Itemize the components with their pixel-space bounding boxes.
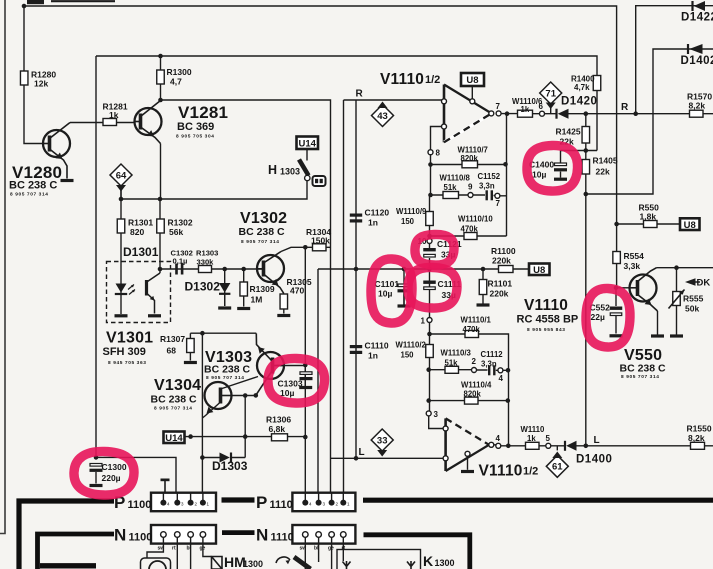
svg-text:V1301: V1301 [106, 330, 153, 347]
wires below N1100 [147, 537, 212, 569]
pin circle op2 +in [443, 426, 448, 431]
svg-text:C1120: C1120 [365, 208, 390, 218]
pin 4 P1110 [302, 500, 308, 506]
junction row199 left [119, 197, 124, 202]
junction fb row7 left [428, 162, 433, 167]
junction row4 left [426, 398, 431, 403]
svg-text:R1100: R1100 [491, 246, 516, 256]
resistor R1307 68 [187, 339, 195, 353]
pin circle 4 out [496, 443, 501, 448]
ground R1101 [477, 303, 490, 306]
junction D1303 top [243, 434, 248, 439]
svg-text:1110: 1110 [271, 532, 294, 544]
wire R550 row to U8 [617, 223, 680, 225]
capacitor C1110 1n [350, 345, 362, 354]
svg-text:12k: 12k [34, 79, 48, 89]
junction C1121 bottom [427, 267, 432, 272]
box U8 op1 [461, 73, 484, 86]
svg-text:V1110: V1110 [524, 297, 568, 314]
wire base V1280 row [70, 122, 135, 124]
resistor R1306 6,8k [272, 434, 288, 441]
wire P1110 pin1 column x305 [304, 247, 306, 502]
light arrows D1301 [128, 285, 135, 295]
connector P1110 box [292, 493, 355, 512]
arrow 61 [552, 452, 562, 459]
resistor W1110 1k [526, 442, 540, 449]
svg-text:1303: 1303 [280, 167, 300, 177]
pin circle op1 +in [442, 99, 447, 104]
pin circle op2 gnd [465, 451, 470, 456]
highlight C1101 [371, 259, 412, 323]
wire V550 emitter drop [657, 311, 659, 335]
svg-text:2: 2 [472, 357, 477, 366]
diamond 43 [372, 105, 394, 127]
svg-text:V1110: V1110 [479, 463, 523, 480]
wire C552 body stem [615, 288, 617, 306]
box U14 P1100 [164, 432, 185, 444]
svg-text:D1301: D1301 [123, 245, 159, 259]
svg-text:D1420: D1420 [561, 96, 597, 108]
pin stub P1110 3 [318, 493, 320, 500]
svg-text:BC 238 C: BC 238 C [620, 363, 667, 375]
highlight C1121 [415, 234, 454, 265]
pin stub P1100 3 [176, 493, 178, 500]
transistor V1304 BC238C [205, 382, 232, 414]
svg-text:W1110/2: W1110/2 [396, 341, 427, 350]
stem C552 [615, 316, 617, 334]
svg-text:D1400: D1400 [576, 454, 612, 466]
svg-text:150k: 150k [311, 236, 330, 246]
resistor R1405 22k [582, 160, 590, 175]
pin 2 P1110 [329, 500, 335, 506]
resistor R1280 12k [20, 71, 28, 85]
resistor R1309 1M [240, 282, 248, 296]
svg-text:10µ: 10µ [532, 170, 546, 180]
svg-text:L: L [359, 447, 365, 458]
svg-text:R1301: R1301 [128, 218, 153, 228]
svg-text:470k: 470k [463, 325, 481, 334]
wire R1405 bottom row to D1402 [586, 49, 713, 194]
diamond 64 [110, 164, 132, 186]
svg-text:1100: 1100 [129, 532, 153, 544]
capacitor C1300 220u [90, 464, 103, 472]
wire W1110/7 feedback row [431, 164, 507, 166]
svg-text:71: 71 [545, 88, 556, 99]
pin 4 N1100 [161, 532, 167, 538]
junction C1400 row [584, 148, 589, 153]
svg-text:1n: 1n [368, 351, 378, 361]
svg-text:220µ: 220µ [102, 473, 121, 483]
wire R1101 drop [482, 269, 484, 304]
svg-text:U14: U14 [165, 433, 183, 444]
svg-text:RC 4558 BP: RC 4558 BP [517, 314, 579, 326]
wire top right branch x635 with D1422 [636, 6, 713, 114]
diode D1400 [565, 441, 577, 451]
junction V550 base [614, 286, 619, 291]
svg-text:H: H [268, 163, 277, 177]
svg-text:1/2: 1/2 [425, 74, 440, 86]
transistor V1281 BC369 [135, 101, 162, 144]
svg-text:C1112: C1112 [481, 350, 504, 359]
pin 4 P1100 [160, 500, 166, 506]
border frame left edge [0, 0, 5, 534]
capacitor C1303 10u [300, 372, 313, 380]
wire op2 output L row [494, 445, 713, 446]
connector N1100 box [151, 525, 216, 544]
svg-text:U8: U8 [533, 265, 545, 276]
svg-text:V550: V550 [624, 347, 662, 364]
pin 1 N1110 [341, 532, 347, 538]
svg-text:D1402: D1402 [681, 55, 713, 67]
svg-text:820k: 820k [464, 390, 482, 399]
stem C1101 [403, 293, 405, 305]
svg-text:4: 4 [499, 374, 504, 383]
wire W1110/4 row [429, 400, 509, 402]
ground R555 [670, 334, 683, 337]
svg-text:V1302: V1302 [240, 210, 287, 227]
terminal C1400 [554, 178, 567, 181]
wire R1309 drop [243, 269, 245, 307]
pin circle 6 [540, 111, 545, 116]
lamp H1303 bar [299, 160, 309, 176]
svg-text:8,2k: 8,2k [688, 433, 705, 443]
wire D1303 riser x245 [244, 396, 246, 458]
cropped marks top edge [27, 0, 44, 4]
svg-text:61: 61 [552, 462, 563, 473]
svg-text:D1422: D1422 [681, 12, 713, 24]
junction fb row10 left [427, 234, 432, 239]
terminal C552 [610, 334, 623, 337]
svg-text:R554: R554 [624, 251, 645, 261]
resistor R1302 56k [157, 219, 165, 233]
resistor W1110/8 51k [443, 192, 459, 199]
resistor W1110/10 470k [464, 233, 477, 240]
pin circle 4 fb [498, 368, 503, 373]
svg-text:4: 4 [496, 434, 501, 443]
svg-text:43: 43 [377, 111, 388, 122]
terminal C1303 [299, 386, 312, 389]
resistor R1101 220k [479, 280, 487, 295]
svg-text:1k: 1k [527, 434, 536, 443]
wire middle column C1111 down to op2 [429, 269, 444, 429]
wire op2 ground stem [467, 456, 469, 470]
svg-text:7: 7 [496, 199, 501, 208]
resistor W1110/6 1k [518, 110, 533, 117]
svg-text:4,7k: 4,7k [574, 83, 590, 92]
svg-text:150: 150 [401, 217, 415, 226]
wire V1304 emitter lead [202, 402, 220, 418]
svg-text:3,3n: 3,3n [479, 182, 495, 191]
wire U14 stem H1303 [306, 149, 308, 161]
highlight C1303 [268, 358, 325, 403]
highlight C1400 [527, 145, 578, 191]
pin circle op2 out [489, 442, 494, 447]
svg-text:W1110: W1110 [521, 425, 546, 434]
svg-text:R1302: R1302 [168, 218, 193, 228]
pin 3 N1110 [316, 532, 322, 538]
svg-text:R1425: R1425 [556, 127, 581, 137]
junction R1302 top [158, 197, 163, 202]
svg-text:R1101: R1101 [488, 279, 513, 289]
arrow of R555 [669, 290, 685, 309]
svg-text:R1306: R1306 [266, 415, 291, 425]
pin 4 N1110 [303, 532, 309, 538]
resistor R1281 1k [103, 119, 117, 126]
svg-text:1/2: 1/2 [523, 466, 538, 478]
wire R input row to op-amp [344, 99, 443, 101]
svg-text:1M: 1M [251, 295, 263, 305]
svg-text:C1152: C1152 [478, 172, 501, 181]
capacitor C1101 10u [398, 284, 411, 292]
junction D1303 left [200, 455, 205, 460]
wire row y199 to H1303 [121, 181, 307, 199]
wire V1281 collector row to long x330 bus down to P1110 pin 3 [161, 100, 331, 503]
svg-text:8 905 707 314: 8 905 707 314 [10, 192, 48, 198]
svg-text:8 945 705 363: 8 945 705 363 [108, 360, 146, 366]
pin circle 7 after out [496, 111, 501, 116]
junction R1101 tap [481, 267, 486, 272]
junction D1420 R [584, 111, 589, 116]
box K1300 [337, 550, 421, 569]
wire R output row y113.7 [496, 112, 713, 114]
svg-text:D1302: D1302 [185, 280, 221, 294]
pin 1 N1100 [200, 532, 206, 538]
wire V1303 collector row y395 [232, 395, 256, 397]
pin stub P1110 2 [331, 493, 333, 500]
resistor W1110/9 150 [426, 212, 434, 226]
pin circle 2 fb [472, 368, 477, 373]
wire V1281 emitter down [160, 144, 162, 200]
svg-text:10µ: 10µ [378, 289, 392, 299]
svg-text:6,8k: 6,8k [269, 424, 286, 434]
diamond 61 [546, 455, 568, 477]
diamond 33 [371, 429, 393, 451]
junction L x356 [354, 456, 359, 461]
bus bar bottom left third [40, 563, 96, 568]
resistor R1425 22k [582, 127, 590, 144]
svg-text:R: R [621, 102, 629, 113]
ground LED D1301 [115, 314, 128, 317]
transistor V1280 BC238C [43, 123, 70, 179]
diode D1420 [557, 109, 569, 119]
junction V1281 coll [158, 98, 163, 103]
wire V1304 collector lead [221, 377, 259, 390]
junction op2 out [506, 444, 511, 449]
svg-text:R1309: R1309 [250, 284, 275, 294]
svg-text:R1303: R1303 [196, 249, 218, 258]
svg-text:R1550: R1550 [687, 424, 712, 434]
svg-text:9: 9 [468, 183, 473, 192]
svg-text:8 905 707 314: 8 905 707 314 [206, 375, 244, 381]
lamp H1303 contact [305, 175, 310, 180]
svg-text:V1281: V1281 [178, 103, 228, 122]
junction row4 right [506, 398, 511, 403]
svg-text:P: P [256, 493, 267, 512]
stem R1305 gnd [283, 309, 285, 314]
svg-text:rt: rt [172, 546, 176, 552]
svg-text:SFH 309: SFH 309 [103, 346, 146, 358]
curved arrow bottom [276, 557, 290, 563]
wires below N1110 [305, 537, 343, 569]
capacitor C1120 1n [350, 214, 362, 223]
svg-text:8 905 707 314: 8 905 707 314 [154, 406, 192, 412]
stem 64 [120, 189, 122, 199]
pin stub P1100 2 [190, 493, 192, 500]
wire P1110 pin4 column x344 [343, 100, 345, 503]
svg-text:8 905 707 314: 8 905 707 314 [241, 239, 279, 245]
wire D1303 row [202, 457, 245, 459]
resistor R1303 330k [199, 266, 212, 273]
svg-text:22k: 22k [596, 167, 610, 177]
svg-text:33: 33 [377, 435, 388, 446]
ground D1302 [218, 306, 231, 309]
svg-text:1: 1 [421, 317, 426, 326]
wire column x586 D1420 to L row [585, 114, 587, 446]
pin circle 8 [428, 150, 433, 155]
capacitor C1111 33u [423, 281, 436, 290]
wire diamond71 stem [550, 105, 552, 114]
potentiometer R555 50k [673, 292, 681, 306]
transistor V1303 BC238C [256, 333, 284, 395]
junction R1307 tap [200, 331, 205, 336]
arrow 33 [377, 450, 387, 457]
svg-text:1k: 1k [109, 110, 119, 120]
svg-text:BC 238 C: BC 238 C [239, 226, 286, 238]
resistor R1301 820 [117, 219, 125, 233]
resistor W1110/1 470k [465, 331, 479, 338]
wire W1110/10 row [430, 235, 507, 237]
junction R1306 right [303, 435, 308, 440]
wire R1300 column [160, 56, 162, 100]
diode D1302 [219, 283, 230, 294]
bus bar between N1100 and N1110 [222, 530, 255, 535]
pin stub P1110 1 [342, 493, 344, 500]
junction sig row x356 [354, 267, 359, 272]
pin 2 N1110 [329, 532, 335, 538]
wire R555 drop [676, 268, 678, 335]
svg-text:N: N [256, 526, 268, 545]
svg-text:51k: 51k [445, 359, 459, 368]
wire R1280 branch column [24, 6, 43, 144]
capacitor C1112 3,3n [488, 365, 496, 375]
svg-text:W1110/8: W1110/8 [440, 174, 471, 183]
wire bus x96 down to P1100 pin 2 [96, 56, 176, 503]
junction C1303 tap [303, 363, 308, 368]
junction photo coll [158, 267, 163, 272]
wire W1110/3 C1112 row [429, 369, 509, 372]
junction fb row8 left [428, 193, 433, 198]
wire op1 output right column x506 [506, 114, 508, 236]
pin 1 P1100 [200, 500, 206, 506]
pin circle 1 [427, 318, 432, 323]
wire supply row y56 to R1400 column [96, 56, 597, 151]
resistor R1305 470 [280, 294, 288, 309]
pin circle op1 -in [442, 124, 447, 129]
capacitor C1121 33u [423, 248, 436, 257]
junction D1302 tap [222, 267, 227, 272]
stem D1302 gnd [224, 295, 226, 306]
svg-text:51k: 51k [444, 183, 458, 192]
highlight C1111 [408, 267, 457, 308]
wire W1110/9 column with C1121 [429, 195, 431, 269]
junction row3 right [506, 368, 511, 373]
pin 3 P1100 [174, 500, 180, 506]
wire W1110/8 C1152 row [431, 165, 507, 196]
resistor R1304 150k [313, 244, 327, 251]
wire W1110/1 row and right column x508 [430, 334, 509, 446]
svg-text:V1110: V1110 [380, 71, 424, 88]
pin stub P1100 4 [162, 493, 164, 500]
resistor R1400 4,7k [593, 76, 601, 91]
junction C1300 corner [94, 455, 99, 460]
wire P1110 pin2 column x318 [317, 269, 319, 503]
svg-text:8 905 705 304: 8 905 705 304 [176, 134, 214, 140]
svg-text:W1110/4: W1110/4 [461, 381, 492, 390]
connector icon right of H1303 [313, 176, 326, 186]
svg-text:C1101: C1101 [375, 279, 400, 289]
pin stub P1100 1 [202, 493, 204, 500]
pin circle op1 out [489, 111, 494, 116]
motor M bottom left [141, 558, 171, 569]
pin 3 N1100 [175, 532, 181, 538]
wire R1302 phototransistor column [159, 199, 161, 273]
ground op2 [461, 470, 474, 473]
svg-text:4,7: 4,7 [170, 77, 182, 87]
svg-text:820k: 820k [461, 154, 479, 163]
svg-text:BC 238 C: BC 238 C [151, 394, 198, 406]
svg-text:220k: 220k [490, 289, 509, 299]
resistor R554 3,3k [613, 252, 621, 264]
pin circle op1 top U8 [470, 99, 475, 104]
pin circle 7 fb [495, 193, 500, 198]
wire R1307 jog row y333 [190, 333, 256, 338]
phototransistor inside D1301 [147, 273, 161, 314]
pin 3 P1110 [316, 500, 322, 506]
svg-text:R1405: R1405 [593, 156, 618, 166]
svg-text:U8: U8 [466, 75, 478, 86]
svg-text:3: 3 [434, 410, 439, 419]
svg-text:3,3k: 3,3k [624, 261, 641, 271]
pin 2 N1100 [188, 532, 194, 538]
arrow 71 [546, 103, 556, 110]
diode D1303 [220, 453, 232, 463]
svg-text:U14: U14 [299, 138, 317, 149]
svg-text:470: 470 [290, 286, 304, 296]
svg-text:DK: DK [697, 278, 711, 289]
lamp bar bottom [294, 557, 311, 569]
wire R1425 C1400 row y150 [561, 150, 598, 152]
svg-text:22µ: 22µ [591, 312, 605, 322]
wire V1302 collector to R1304 [281, 247, 331, 251]
svg-text:R1300: R1300 [167, 67, 192, 77]
diamond 71 [540, 82, 562, 104]
svg-text:220k: 220k [492, 256, 511, 266]
svg-text:BC 238 C: BC 238 C [9, 180, 57, 192]
op-amp V1110 1/2 bottom [446, 418, 489, 471]
bus bar between P1100 and P1110 [222, 497, 255, 502]
junction R1309 tap [241, 267, 246, 272]
wire V550 collector row [657, 267, 713, 269]
svg-text:330k: 330k [197, 258, 215, 267]
junction A [22, 4, 27, 9]
svg-text:BC 369: BC 369 [177, 121, 214, 133]
svg-text:1110: 1110 [270, 499, 293, 511]
svg-text:8 905 955 843: 8 905 955 843 [527, 327, 565, 333]
junction x635 R [633, 111, 638, 116]
stem C1303 [304, 380, 306, 386]
svg-text:64: 64 [116, 170, 127, 181]
wire C1303 drop [304, 365, 306, 387]
